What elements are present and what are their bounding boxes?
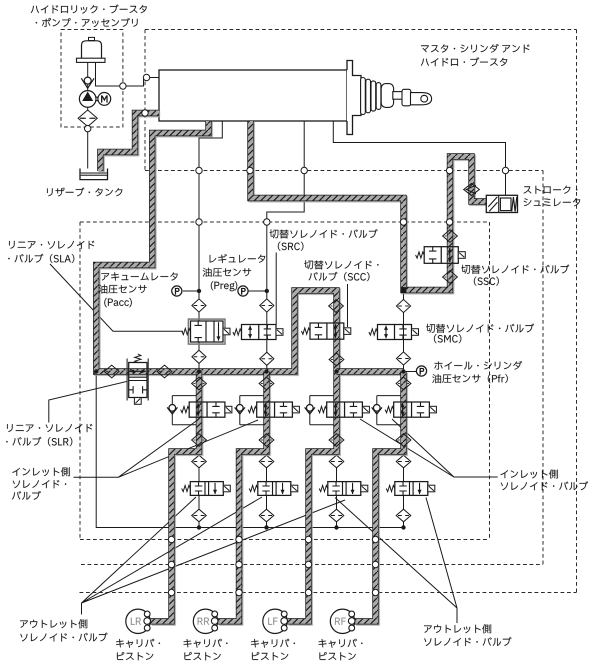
bypass check valve LF [305, 405, 315, 415]
switching solenoid valve SSC [416, 247, 466, 264]
check valve (pump outlet) [81, 77, 94, 88]
master cylinder end flange [347, 61, 361, 135]
wire: Pacc sensor tap [183, 290, 199, 292]
linear solenoid valve SLA [182, 319, 230, 344]
filter F0 (pump suction) [78, 110, 97, 127]
pressure line: front bus east segment [337, 368, 404, 374]
bypass check valve LR [167, 405, 177, 415]
linear solenoid valve SLR [127, 354, 148, 404]
dashed step x=242.5 [242, 565, 244, 593]
leader: SLR label [49, 381, 128, 422]
dashed line: ECU box right x=489.5 [489, 222, 491, 540]
filter (SLA lower) [192, 350, 206, 363]
filter (SMC lower) [396, 352, 410, 365]
wire: inlet valve bypass loop 2 [240, 396, 267, 425]
orifice (outlet lower, RF) [396, 509, 411, 522]
leader: inlet-left label [74, 419, 259, 477]
label: SRC [270, 229, 378, 238]
orifice (outlet lower, LF) [329, 509, 344, 522]
push rod [393, 92, 404, 100]
label: outlet left [20, 619, 87, 628]
wire: Pfr sensor tap [404, 371, 417, 373]
junction dots [94, 289, 406, 530]
filter (SLA upper) [192, 299, 206, 312]
labels: caliper piston x4 [116, 639, 160, 648]
stroke simulator [486, 195, 517, 212]
wire: accumulator to check valve to pump [87, 62, 89, 92]
leader: SLA label [50, 264, 183, 331]
filter (inlet, on line) 4 [396, 434, 411, 447]
inlet solenoid valve 1 [181, 402, 232, 417]
pressure line: rear-left wheel branch [151, 372, 200, 622]
filter (inlet, on line) 1 [192, 434, 207, 447]
caliper piston LR [126, 609, 151, 633]
filter (SCC upper, on line) [329, 300, 344, 313]
filter (bus left, on line) [104, 365, 119, 378]
master cylinder body [159, 70, 347, 121]
wire: inlet valve bypass loop 1 [172, 396, 199, 425]
dashed box: pump assembly boundary [61, 30, 123, 128]
dashed line: actuator right edge [576, 30, 578, 593]
damper (RF drop) [396, 377, 411, 390]
label: stroke simulator [524, 186, 578, 194]
boundary port circles [120, 74, 509, 595]
outlet solenoid valve RF [386, 482, 435, 496]
pump P1 [79, 91, 96, 108]
dashed line: master-cylinder unit left edge [144, 30, 146, 171]
inlet solenoid valve 4 [385, 402, 436, 417]
wire: outlet valve column 4 [403, 453, 405, 528]
pressure line: RF wheel branch [355, 372, 404, 622]
filter (SSC upper, on line) [443, 230, 458, 243]
orifice (outlet lower, RR) [259, 509, 274, 522]
boot bellows [361, 78, 394, 115]
leader: inlet-right label [360, 419, 498, 477]
rod end block [402, 89, 411, 106]
filter (SRC upper) [260, 299, 274, 312]
label: hydraulic booster pump assembly [31, 4, 147, 13]
orifice (outlet upper, LF) [329, 455, 344, 468]
filter F0 inner line [80, 117, 95, 119]
label: inlet right [500, 469, 557, 478]
leader: SCC label [347, 284, 349, 327]
wire: outlet valve column 1 [198, 453, 200, 528]
pressure sensor Pfr [416, 366, 426, 376]
accumulator [77, 37, 106, 62]
filter (SRC lower) [260, 352, 274, 365]
label: master cylinder and hydro booster [421, 44, 529, 53]
outlet solenoid valve RR [249, 482, 298, 496]
label: SCC [304, 260, 378, 269]
motor M1 [95, 93, 110, 106]
label: Preg [210, 254, 266, 263]
leader: SRC label [275, 253, 277, 325]
bypass check valve RF [372, 405, 382, 415]
wire: MC port1 to SLA column [199, 121, 222, 372]
filter (bus right, on line) [157, 365, 172, 378]
bypass check valve RR [235, 405, 245, 415]
junction square (SSC loop bottom) [401, 287, 407, 293]
wire: reservoir return bus [96, 372, 403, 528]
orifice (outlet upper, LR) [192, 455, 207, 468]
pressure line: MC port B to rear bus / SCC loop / LF caliper drop [96, 121, 336, 621]
filter (inlet, on line) 2 [259, 434, 274, 447]
label: reserve tank [47, 187, 122, 196]
label: SLA [9, 241, 94, 249]
clevis eye [411, 93, 432, 105]
dashed line: right inner boundary x=543 [542, 171, 544, 565]
pressure sensor Preg [238, 286, 248, 296]
filter (inlet, on line) 3 [329, 434, 344, 447]
wire: pump output to master cylinder [96, 62, 160, 87]
leader: outlet-left label [82, 497, 346, 615]
wire: outlet valve column 2 [266, 453, 268, 528]
dashed line: ECU box left x=80 [79, 222, 81, 540]
caliper piston LF [263, 609, 288, 633]
dashed line: lower boundary y=592.5 [80, 592, 577, 594]
wire: inlet valve bypass loop 4 [377, 396, 404, 425]
damper (rear-right drop) [259, 377, 274, 390]
pressure line: MC to reservoir (thick) [100, 113, 159, 171]
label: SSC [461, 265, 569, 274]
orifice (outlet upper, RR) [259, 455, 274, 468]
switching solenoid valve SMC [369, 325, 419, 340]
outlet solenoid valve LR [182, 482, 231, 496]
check valve (stroke simulator) [464, 183, 480, 195]
dashed line: actuator top edge [145, 29, 577, 31]
orifice (outlet lower, LR) [192, 509, 207, 522]
dashed line: master-cylinder unit bottom edge y=170.5 [145, 170, 543, 172]
label: SLR [7, 424, 92, 432]
dashed line: ECU box top y=222 [80, 221, 490, 223]
wire: MC port3 to stroke simulator [333, 121, 505, 198]
junction port (pump box) [85, 125, 91, 131]
pressure line: rear-right wheel branch [218, 372, 267, 622]
filter (SMC upper) [396, 299, 410, 312]
label: Pfr [434, 361, 522, 370]
wire: inlet valve bypass loop 3 [310, 396, 337, 425]
inlet solenoid valve 3 [318, 402, 369, 417]
wire: SMC column [403, 290, 405, 372]
wire: pump to filter to reservoir [87, 107, 89, 171]
wire: outlet valve column 3 [336, 453, 338, 528]
switching solenoid valve SRC [233, 325, 283, 340]
label: Pacc [101, 272, 177, 280]
filter (SCC lower, on line) [329, 353, 344, 366]
damper (rear-left drop) [192, 377, 207, 390]
outlet solenoid valve LF [319, 482, 368, 496]
dashed step x=377.5 [377, 540, 379, 565]
filter (SSC lower, on line) [443, 271, 458, 284]
caliper piston RR [193, 609, 218, 633]
pressure line: MC port C to SSC loop and stroke simulator [251, 121, 487, 290]
leader: outlet-right label [335, 498, 457, 624]
switching solenoid valve SCC [301, 323, 350, 339]
orifice (outlet upper, RF) [396, 455, 411, 468]
label: outlet right [424, 624, 491, 633]
pressure sensor Pacc [172, 286, 182, 296]
wire: Preg sensor tap [248, 290, 267, 292]
dashed line: ECU box bottom y=539.5 [80, 539, 490, 541]
inlet solenoid valve 2 [248, 402, 299, 417]
wire: MC port2 to SRC column [267, 121, 304, 372]
reservoir tank [80, 169, 108, 180]
label: SMC [426, 324, 534, 333]
caliper piston RF [330, 609, 355, 633]
label: inlet left [12, 467, 69, 476]
dashed line: lower boundary y=564.5 [81, 564, 543, 566]
